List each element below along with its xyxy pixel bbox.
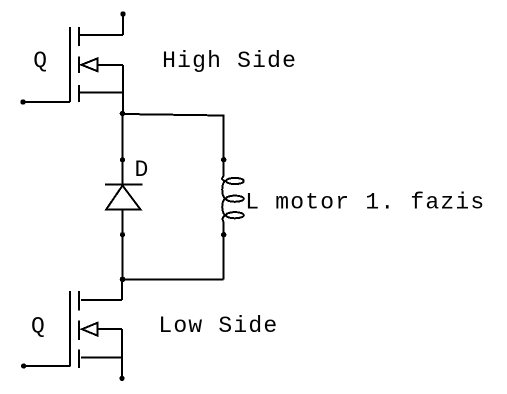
- wire: diode anode down to node B: [122, 210, 124, 280]
- inductor L coils: [222, 176, 244, 222]
- svg-text:Q: Q: [33, 48, 48, 74]
- wire: inductor branch vertical down from top corner: [223, 115, 225, 177]
- wire: Q2 source/body down to bottom terminal: [121, 329, 123, 378]
- wire: Q1 source/body down to phase node A: [122, 65, 124, 114]
- terminal dot: Q1 drain supply: [120, 11, 125, 16]
- node dot: diode cathode node: [120, 157, 125, 162]
- wire: node A down to diode cathode: [122, 114, 124, 185]
- junction dot: node B: [120, 277, 126, 283]
- terminal dot: Q1 gate: [20, 99, 25, 104]
- wire: node B down to Q2 drain: [121, 279, 123, 300]
- terminal dot: Q2 gate: [21, 363, 26, 368]
- svg-text:L motor 1. fazis: L motor 1. fazis: [245, 189, 485, 215]
- diode D (freewheeling, cathode up): [105, 185, 142, 210]
- transistor Q1 (high-side MOSFET): [70, 27, 123, 102]
- node dot: diode anode node: [120, 232, 125, 237]
- transistor Q2 (low-side MOSFET): [70, 291, 122, 368]
- wire: inductor bottom corner to node B: [123, 278, 224, 280]
- wire: Q2 gate lead: [24, 365, 70, 367]
- svg-text:Low Side: Low Side: [158, 313, 278, 339]
- wire: Q1 drain up to supply terminal: [122, 14, 124, 35]
- svg-text:High Side: High Side: [162, 48, 297, 74]
- svg-text:Q: Q: [31, 314, 46, 340]
- junction dot: node A (phase node): [120, 111, 126, 117]
- wire: node A to inductor top corner: [123, 114, 224, 116]
- terminal dot: Q2 source: [119, 376, 124, 381]
- svg-text:D: D: [135, 157, 150, 183]
- node dot: inductor top: [221, 157, 226, 162]
- wire: Q1 gate lead: [23, 101, 70, 103]
- node dot: inductor bottom: [221, 232, 226, 237]
- wire: inductor bottom down to corner: [223, 222, 225, 279]
